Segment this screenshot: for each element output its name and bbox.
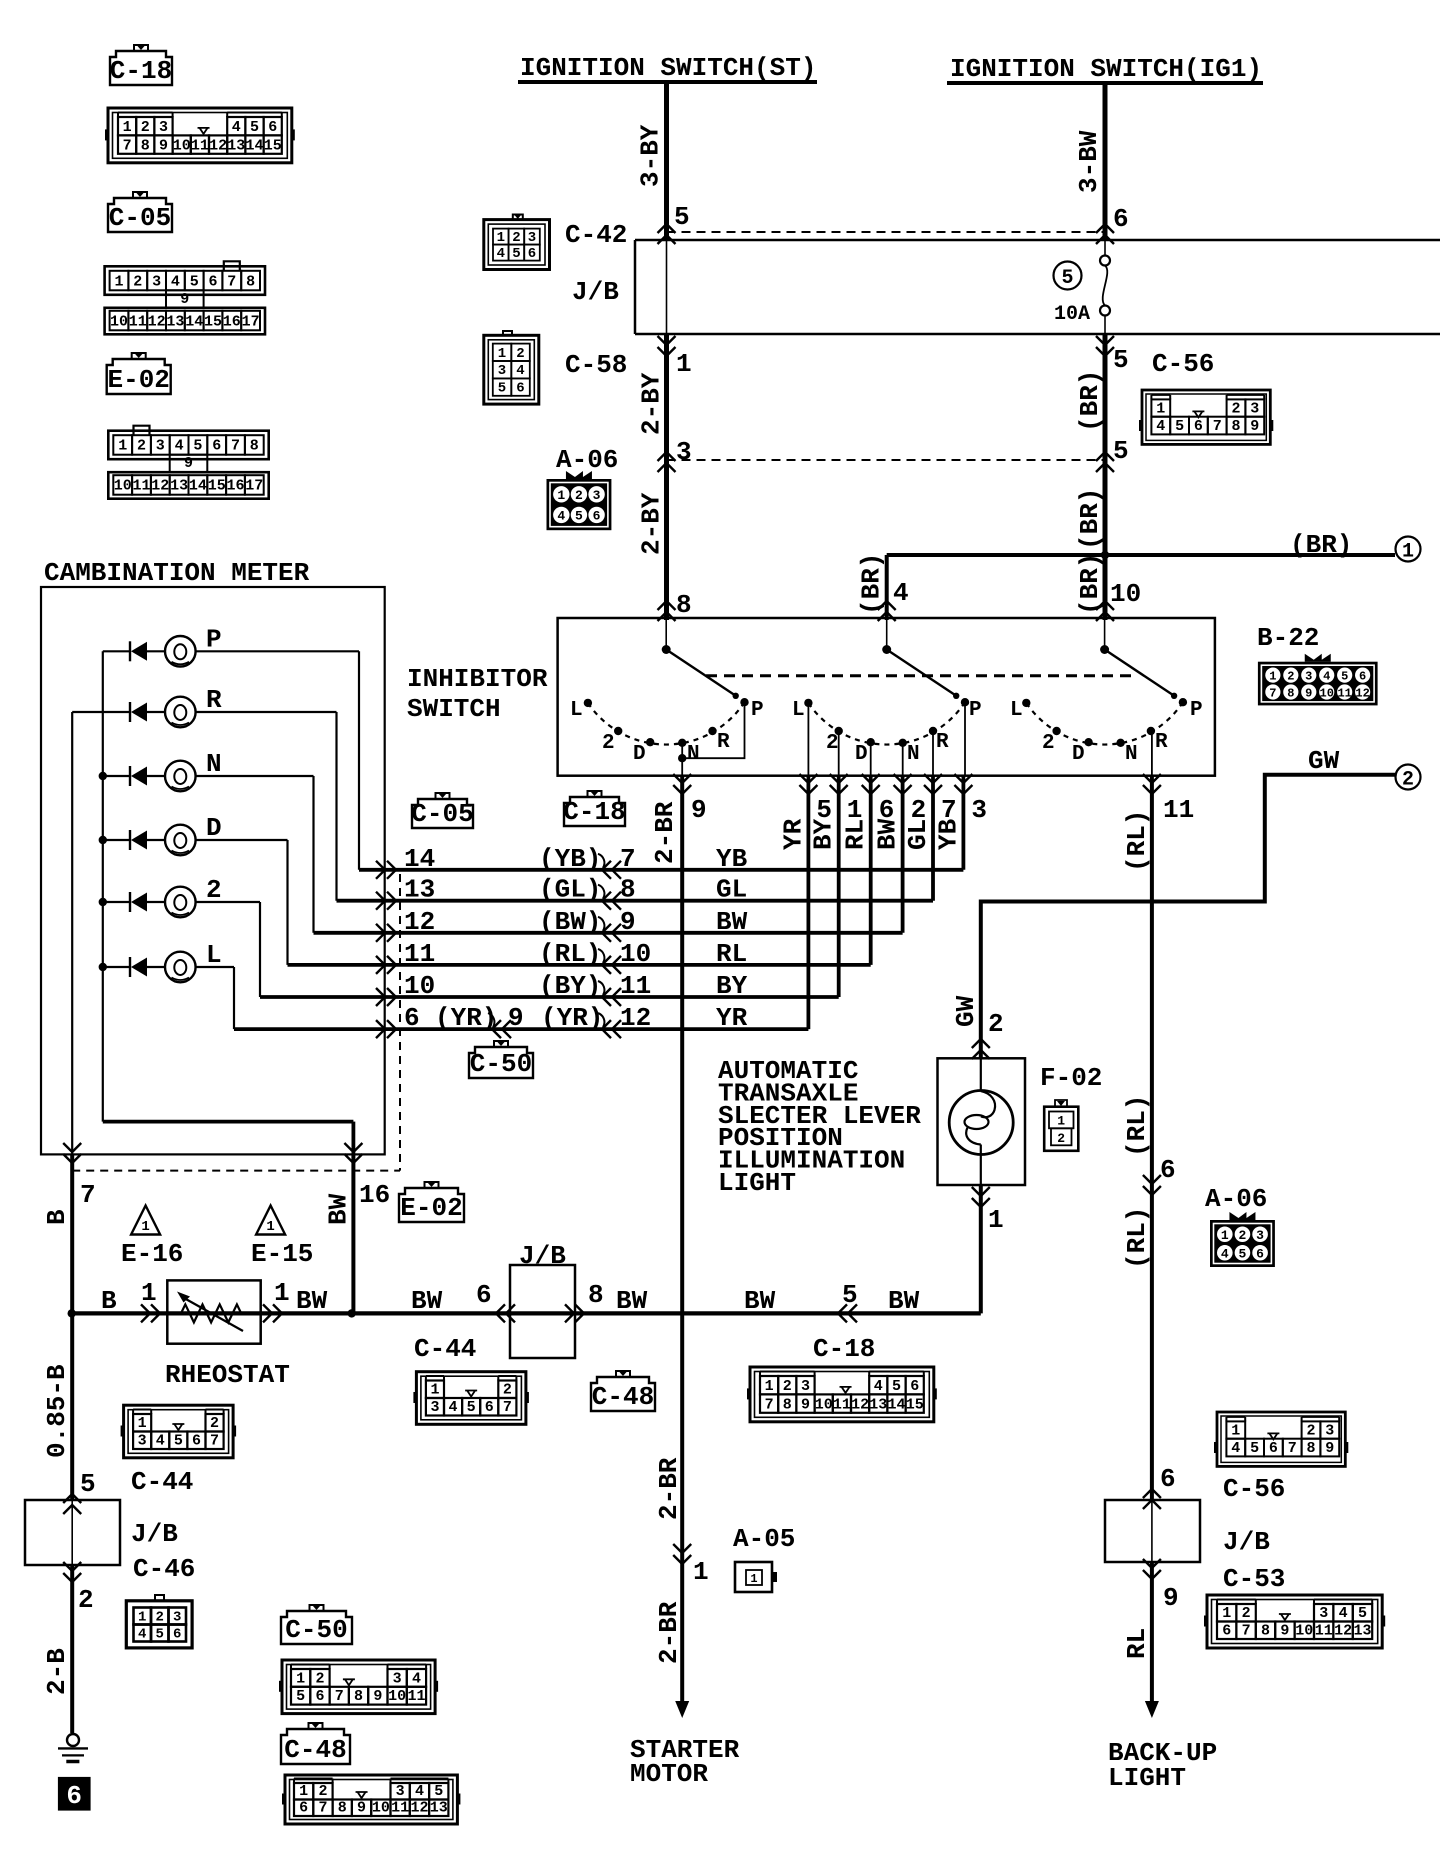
svg-text:13: 13 [170, 478, 188, 495]
svg-text:1: 1 [1057, 1114, 1065, 1129]
svg-text:2: 2 [503, 1382, 512, 1399]
svg-text:B: B [101, 1286, 117, 1316]
svg-text:4: 4 [415, 1783, 424, 1800]
svg-text:(RL): (RL) [1122, 1095, 1152, 1157]
svg-text:RL: RL [716, 939, 747, 969]
svg-text:(YB): (YB) [539, 844, 601, 874]
svg-text:5: 5 [1250, 1440, 1259, 1457]
svg-text:5: 5 [1239, 1246, 1247, 1261]
svg-text:BY: BY [809, 818, 839, 850]
svg-text:13: 13 [404, 875, 435, 905]
svg-text:10: 10 [1320, 686, 1334, 700]
svg-text:3: 3 [971, 795, 987, 825]
svg-text:(YR): (YR) [541, 1003, 603, 1033]
svg-text:3: 3 [173, 1610, 181, 1626]
svg-text:E-15: E-15 [251, 1239, 313, 1269]
svg-text:C-18: C-18 [110, 56, 172, 86]
svg-text:1: 1 [1269, 669, 1276, 683]
svg-text:11: 11 [833, 1396, 851, 1413]
svg-text:6: 6 [516, 381, 524, 397]
svg-text:10: 10 [114, 478, 132, 495]
svg-text:12: 12 [1334, 1623, 1352, 1640]
svg-text:9: 9 [1305, 686, 1312, 700]
svg-text:11: 11 [1163, 795, 1194, 825]
svg-text:7: 7 [503, 1399, 512, 1416]
svg-text:13: 13 [869, 1396, 887, 1413]
svg-text:4: 4 [874, 1378, 883, 1395]
svg-text:6: 6 [66, 1781, 82, 1811]
svg-text:6: 6 [404, 1003, 420, 1033]
svg-text:7: 7 [765, 1396, 774, 1413]
svg-text:4: 4 [893, 578, 909, 608]
svg-text:13: 13 [430, 1800, 448, 1817]
svg-text:4: 4 [557, 509, 565, 524]
svg-text:11: 11 [129, 313, 147, 330]
svg-text:8: 8 [354, 1688, 363, 1705]
svg-text:R: R [1155, 731, 1168, 754]
svg-text:12: 12 [1355, 686, 1369, 700]
svg-text:BW: BW [888, 1286, 920, 1316]
svg-text:RL: RL [1122, 1628, 1152, 1659]
svg-text:8: 8 [1287, 686, 1294, 700]
svg-text:8: 8 [620, 875, 636, 905]
svg-text:9: 9 [180, 291, 189, 308]
svg-text:14: 14 [887, 1396, 905, 1413]
svg-text:C-50: C-50 [470, 1049, 532, 1079]
svg-text:(BR): (BR) [1075, 370, 1105, 432]
svg-text:2: 2 [141, 119, 150, 136]
svg-text:8: 8 [588, 1280, 604, 1310]
svg-text:C-56: C-56 [1223, 1474, 1285, 1504]
svg-text:2-BR: 2-BR [654, 1457, 684, 1520]
svg-text:7: 7 [1269, 686, 1276, 700]
svg-text:2: 2 [1042, 732, 1055, 755]
svg-text:5: 5 [80, 1469, 96, 1499]
svg-text:5: 5 [250, 119, 259, 136]
svg-text:6: 6 [208, 273, 217, 290]
svg-text:2: 2 [315, 1670, 324, 1687]
svg-text:9: 9 [1325, 1440, 1334, 1457]
svg-text:J/B: J/B [519, 1241, 566, 1271]
svg-text:1: 1 [118, 438, 127, 455]
svg-text:16: 16 [359, 1180, 390, 1210]
svg-text:5: 5 [1113, 345, 1129, 375]
svg-text:5: 5 [1061, 267, 1073, 290]
svg-text:9: 9 [1163, 1583, 1179, 1613]
svg-text:11: 11 [132, 478, 150, 495]
svg-text:10: 10 [110, 313, 128, 330]
svg-text:5: 5 [296, 1688, 305, 1705]
svg-text:1: 1 [988, 1205, 1004, 1235]
svg-text:IGNITION SWITCH(IG1): IGNITION SWITCH(IG1) [950, 54, 1262, 84]
svg-text:R: R [206, 685, 222, 715]
svg-text:N: N [907, 743, 920, 766]
svg-text:14: 14 [404, 844, 435, 874]
svg-text:7: 7 [335, 1688, 344, 1705]
svg-text:10: 10 [1110, 579, 1141, 609]
svg-text:RL: RL [841, 819, 871, 850]
svg-text:6: 6 [1359, 669, 1366, 683]
svg-text:8: 8 [1261, 1623, 1270, 1640]
svg-text:2: 2 [575, 488, 583, 503]
svg-text:1: 1 [114, 273, 123, 290]
svg-text:9: 9 [1250, 418, 1259, 435]
svg-text:6: 6 [593, 509, 601, 524]
svg-text:2-BY: 2-BY [637, 492, 667, 555]
svg-text:2: 2 [826, 732, 839, 755]
svg-text:D: D [206, 813, 222, 843]
svg-text:9: 9 [1280, 1623, 1289, 1640]
svg-text:L: L [1010, 699, 1023, 722]
svg-text:6: 6 [1256, 1246, 1264, 1261]
svg-text:GL: GL [903, 819, 933, 850]
svg-text:1: 1 [141, 1219, 149, 1235]
svg-text:6: 6 [1160, 1464, 1176, 1494]
svg-text:2-BR: 2-BR [654, 1601, 684, 1664]
svg-text:BW: BW [873, 818, 903, 850]
svg-text:3: 3 [1256, 1228, 1264, 1243]
svg-text:D: D [855, 743, 868, 766]
svg-text:3: 3 [159, 119, 168, 136]
svg-text:6: 6 [268, 119, 277, 136]
svg-text:2: 2 [155, 1610, 163, 1626]
svg-text:4: 4 [412, 1670, 421, 1687]
svg-text:N: N [687, 743, 700, 766]
svg-text:3: 3 [801, 1378, 810, 1395]
svg-text:E-16: E-16 [121, 1239, 183, 1269]
svg-text:2: 2 [516, 346, 524, 362]
svg-text:7: 7 [231, 438, 240, 455]
svg-text:2-B: 2-B [42, 1648, 72, 1695]
svg-text:15: 15 [204, 313, 222, 330]
svg-text:3: 3 [1250, 401, 1259, 418]
svg-text:C-48: C-48 [284, 1735, 346, 1765]
svg-text:2-BR: 2-BR [650, 801, 680, 864]
svg-text:6: 6 [910, 1378, 919, 1395]
svg-text:7: 7 [318, 1800, 327, 1817]
svg-text:C-53: C-53 [1223, 1564, 1285, 1594]
svg-text:3: 3 [498, 363, 506, 379]
svg-text:BY: BY [716, 971, 748, 1001]
svg-text:8: 8 [141, 137, 150, 154]
svg-text:3: 3 [396, 1783, 405, 1800]
svg-text:GW: GW [1308, 746, 1340, 776]
svg-text:4: 4 [1323, 669, 1330, 683]
svg-text:5: 5 [1175, 418, 1184, 435]
svg-text:1: 1 [138, 1415, 147, 1432]
svg-text:(RL): (RL) [1122, 810, 1152, 872]
svg-text:2: 2 [1231, 401, 1240, 418]
svg-text:P: P [206, 624, 222, 654]
svg-text:(BR): (BR) [1290, 530, 1352, 560]
svg-text:9: 9 [691, 795, 707, 825]
svg-text:1: 1 [1221, 1228, 1229, 1243]
svg-text:13: 13 [227, 137, 245, 154]
svg-text:YR: YR [716, 1003, 748, 1033]
svg-text:GL: GL [716, 875, 747, 905]
svg-text:2: 2 [1239, 1228, 1247, 1243]
svg-text:7: 7 [1242, 1623, 1251, 1640]
svg-text:4: 4 [232, 119, 241, 136]
svg-text:2: 2 [1057, 1131, 1065, 1146]
svg-text:11: 11 [191, 137, 209, 154]
svg-text:1: 1 [750, 1572, 757, 1586]
svg-text:5: 5 [193, 438, 202, 455]
svg-text:D: D [1072, 743, 1085, 766]
svg-text:2: 2 [1242, 1605, 1251, 1622]
svg-text:2: 2 [206, 875, 222, 905]
svg-text:3: 3 [676, 437, 692, 467]
svg-text:2: 2 [1306, 1423, 1315, 1440]
svg-text:YR: YR [778, 818, 808, 850]
svg-text:5: 5 [174, 1433, 183, 1450]
svg-text:10: 10 [404, 971, 435, 1001]
svg-text:1: 1 [1156, 401, 1165, 418]
svg-text:6: 6 [1194, 418, 1203, 435]
svg-text:5: 5 [1341, 669, 1348, 683]
svg-text:(BY): (BY) [539, 971, 601, 1001]
svg-text:3: 3 [138, 1433, 147, 1450]
svg-text:2-BY: 2-BY [637, 372, 667, 435]
svg-text:12: 12 [151, 478, 169, 495]
svg-text:7: 7 [1288, 1440, 1297, 1457]
svg-text:5: 5 [467, 1399, 476, 1416]
svg-text:C-44: C-44 [414, 1334, 476, 1364]
svg-text:8: 8 [1306, 1440, 1315, 1457]
svg-text:3: 3 [1319, 1605, 1328, 1622]
svg-text:10: 10 [1295, 1623, 1313, 1640]
svg-text:R: R [936, 731, 949, 754]
svg-text:7: 7 [1213, 418, 1222, 435]
svg-text:5: 5 [674, 202, 690, 232]
svg-text:11: 11 [620, 971, 651, 1001]
svg-text:1: 1 [557, 488, 565, 503]
svg-text:E-02: E-02 [400, 1193, 462, 1223]
svg-text:6: 6 [1113, 204, 1129, 234]
svg-text:2: 2 [1402, 769, 1414, 792]
svg-text:5: 5 [498, 381, 506, 397]
svg-text:L: L [206, 940, 222, 970]
svg-text:4: 4 [1221, 1246, 1229, 1261]
svg-text:N: N [1125, 743, 1138, 766]
svg-text:RHEOSTAT: RHEOSTAT [165, 1360, 290, 1390]
svg-text:8: 8 [1231, 418, 1240, 435]
svg-text:10: 10 [815, 1396, 833, 1413]
svg-text:1: 1 [765, 1378, 774, 1395]
svg-text:11: 11 [404, 939, 435, 969]
svg-text:4: 4 [1231, 1440, 1240, 1457]
svg-text:17: 17 [245, 478, 263, 495]
svg-text:2: 2 [137, 438, 146, 455]
svg-text:4: 4 [449, 1399, 458, 1416]
svg-text:2: 2 [318, 1783, 327, 1800]
svg-text:LIGHT: LIGHT [1108, 1763, 1186, 1793]
svg-text:L: L [792, 699, 805, 722]
svg-text:2: 2 [210, 1415, 219, 1432]
svg-text:5: 5 [434, 1783, 443, 1800]
svg-text:1: 1 [1231, 1423, 1240, 1440]
svg-text:13: 13 [166, 313, 184, 330]
svg-text:1: 1 [123, 119, 132, 136]
svg-text:7: 7 [80, 1180, 96, 1210]
svg-text:SWITCH: SWITCH [407, 694, 501, 724]
svg-text:R: R [717, 731, 730, 754]
svg-text:11: 11 [391, 1800, 409, 1817]
svg-text:7: 7 [210, 1433, 219, 1450]
svg-text:7: 7 [227, 273, 236, 290]
svg-text:P: P [969, 699, 982, 722]
svg-text:C-18: C-18 [813, 1334, 875, 1364]
svg-text:C-18: C-18 [563, 797, 625, 827]
svg-text:L: L [570, 699, 583, 722]
svg-text:3: 3 [156, 438, 165, 455]
svg-text:5: 5 [512, 246, 520, 262]
svg-text:10: 10 [173, 137, 191, 154]
svg-text:C-05: C-05 [411, 799, 473, 829]
svg-text:15: 15 [208, 478, 226, 495]
svg-text:3: 3 [393, 1670, 402, 1687]
svg-text:10A: 10A [1054, 303, 1090, 326]
svg-text:C-44: C-44 [131, 1467, 193, 1497]
svg-text:BW: BW [296, 1286, 328, 1316]
svg-text:1: 1 [676, 349, 692, 379]
svg-text:2: 2 [783, 1378, 792, 1395]
svg-text:14: 14 [189, 478, 207, 495]
svg-text:C-58: C-58 [565, 350, 627, 380]
svg-text:3: 3 [152, 273, 161, 290]
svg-text:10: 10 [620, 939, 651, 969]
svg-text:D: D [633, 743, 646, 766]
svg-text:5: 5 [892, 1378, 901, 1395]
svg-text:11: 11 [1337, 686, 1351, 700]
svg-text:LIGHT: LIGHT [718, 1168, 796, 1198]
svg-text:11: 11 [1315, 1623, 1333, 1640]
svg-text:C-46: C-46 [133, 1554, 195, 1584]
svg-text:9: 9 [801, 1396, 810, 1413]
svg-text:14: 14 [245, 137, 263, 154]
svg-text:15: 15 [264, 137, 282, 154]
svg-text:8: 8 [246, 273, 255, 290]
svg-text:2: 2 [988, 1009, 1004, 1039]
svg-text:MOTOR: MOTOR [630, 1759, 708, 1789]
svg-text:11: 11 [407, 1688, 425, 1705]
svg-text:2: 2 [133, 273, 142, 290]
svg-text:3: 3 [430, 1399, 439, 1416]
svg-text:6: 6 [173, 1627, 181, 1643]
svg-text:1: 1 [498, 346, 506, 362]
svg-text:4: 4 [156, 1433, 165, 1450]
svg-text:C-48: C-48 [592, 1382, 654, 1412]
svg-text:J/B: J/B [572, 277, 619, 307]
svg-text:C-50: C-50 [285, 1615, 347, 1645]
svg-text:0.85-B: 0.85-B [42, 1364, 72, 1458]
svg-text:(RL): (RL) [1122, 1207, 1152, 1269]
svg-text:2: 2 [512, 230, 520, 246]
svg-text:(RL): (RL) [539, 939, 601, 969]
svg-text:C-42: C-42 [565, 220, 627, 250]
svg-text:9: 9 [159, 137, 168, 154]
svg-text:1: 1 [1402, 541, 1414, 564]
svg-text:8: 8 [338, 1800, 347, 1817]
svg-text:6: 6 [1222, 1623, 1231, 1640]
svg-text:1: 1 [1222, 1605, 1231, 1622]
svg-text:1: 1 [296, 1670, 305, 1687]
svg-text:6: 6 [192, 1433, 201, 1450]
svg-text:6: 6 [299, 1800, 308, 1817]
svg-text:12: 12 [851, 1396, 869, 1413]
svg-text:10: 10 [372, 1800, 390, 1817]
svg-text:A-06: A-06 [1205, 1184, 1267, 1214]
svg-text:F-02: F-02 [1040, 1063, 1102, 1093]
svg-text:(BR): (BR) [1075, 488, 1105, 550]
svg-text:5: 5 [190, 273, 199, 290]
svg-text:N: N [206, 749, 222, 779]
svg-text:INHIBITOR: INHIBITOR [407, 664, 548, 694]
svg-text:4: 4 [497, 246, 505, 262]
svg-text:12: 12 [410, 1800, 428, 1817]
svg-text:3-BW: 3-BW [1074, 130, 1104, 193]
svg-text:5: 5 [1358, 1605, 1367, 1622]
svg-text:J/B: J/B [1223, 1527, 1270, 1557]
svg-text:14: 14 [185, 313, 203, 330]
svg-text:9: 9 [184, 455, 193, 472]
svg-text:12: 12 [209, 137, 227, 154]
svg-text:6: 6 [212, 438, 221, 455]
svg-text:5: 5 [155, 1627, 163, 1643]
svg-text:6: 6 [476, 1280, 492, 1310]
svg-text:GW: GW [951, 995, 981, 1027]
svg-text:A-06: A-06 [556, 445, 618, 475]
svg-text:B-22: B-22 [1257, 623, 1319, 653]
svg-text:4: 4 [1339, 1605, 1348, 1622]
svg-text:8: 8 [783, 1396, 792, 1413]
svg-text:4: 4 [1156, 418, 1165, 435]
svg-text:3: 3 [593, 488, 601, 503]
svg-text:(GL): (GL) [539, 875, 601, 905]
svg-text:4: 4 [171, 273, 180, 290]
svg-text:10: 10 [388, 1688, 406, 1705]
svg-text:4: 4 [138, 1627, 146, 1643]
svg-text:9: 9 [373, 1688, 382, 1705]
svg-text:9: 9 [620, 907, 636, 937]
svg-text:6: 6 [1269, 1440, 1278, 1457]
svg-text:4: 4 [175, 438, 184, 455]
svg-text:2: 2 [1287, 669, 1294, 683]
svg-text:16: 16 [226, 478, 244, 495]
svg-text:1: 1 [430, 1382, 439, 1399]
svg-text:B: B [42, 1209, 72, 1225]
svg-text:1: 1 [693, 1557, 709, 1587]
svg-text:1: 1 [299, 1783, 308, 1800]
svg-text:15: 15 [906, 1396, 924, 1413]
svg-text:3: 3 [1305, 669, 1312, 683]
svg-text:A-05: A-05 [733, 1524, 795, 1554]
svg-text:12: 12 [620, 1003, 651, 1033]
svg-text:12: 12 [148, 313, 166, 330]
svg-text:6: 6 [315, 1688, 324, 1705]
svg-text:BW: BW [323, 1193, 353, 1225]
svg-text:(BW): (BW) [539, 907, 601, 937]
svg-text:8: 8 [250, 438, 259, 455]
svg-text:5: 5 [575, 509, 583, 524]
svg-text:YB: YB [933, 818, 963, 850]
svg-text:E-02: E-02 [107, 365, 169, 395]
svg-text:6: 6 [485, 1399, 494, 1416]
svg-text:1: 1 [497, 230, 505, 246]
svg-text:17: 17 [242, 313, 260, 330]
svg-text:IGNITION SWITCH(ST): IGNITION SWITCH(ST) [520, 53, 816, 83]
svg-text:J/B: J/B [131, 1519, 178, 1549]
